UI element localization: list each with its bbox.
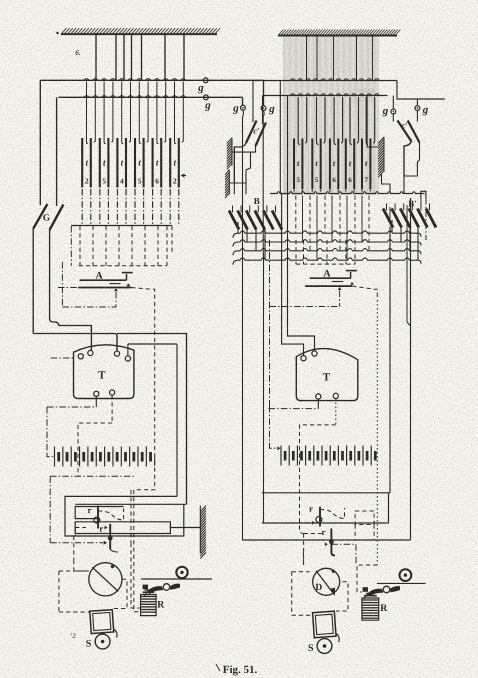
far right loop down to comb B' [421,191,426,240]
resistance coil R (right) [362,594,388,621]
wire earth wall2 to comb B [229,183,246,194]
droppers from bump bus to transfer rows [296,196,369,261]
sounder S electromagnet box (right) [313,611,340,644]
line rail under pulley (left) [141,578,212,580]
relay loop outer (right) [243,539,411,541]
resistance coil R (left) [141,590,166,616]
wire bus2 corner down to middle vertical [242,97,244,105]
key A contact arrow on base (right) [350,282,354,285]
relay tongue 1 with pivot (right) [298,503,345,526]
key A base bar (left) [78,287,131,289]
dashed box around galvanometer (left) [59,571,90,612]
pointer arrow at right of left bank [181,173,186,177]
dash-dot return from key A to line (right) [270,306,340,308]
right line vertical to relay loop inner [389,207,391,493]
transfer wire row 1 between B and B' [233,231,421,238]
key A back contact post (right) [346,271,357,279]
earth wall 1 left of right station [227,138,232,170]
label c' tail wires [234,143,255,183]
wire bus1 corner down to middle vertical [263,80,265,105]
dashed wire dotted-drop to R coil (right) [357,565,377,592]
key A contact arrow on base (left) [126,283,130,286]
key A lower contact arrow (right) [338,287,342,307]
dashed wire galvanometer to sounder (left) [114,579,128,608]
dashed wire from key A to battery right end (left) [131,288,154,612]
earth bar (left station line terminus) [56,28,220,34]
right line vertical to relay loop outer [407,198,411,540]
dash-dot wire relay to galvanometer D (right) [355,544,357,565]
contact spring pair t2 (left bank, position 1) [82,82,95,226]
contact spring pair t (right bank, position 5) [362,97,375,192]
wire T terminal4 to relay loop vertical (y=344 run) [128,344,177,496]
terminal g on bus 1 [197,78,208,94]
contact spring pair t5 (left bank, position 2) [100,82,113,226]
terminal g at line wire 2 head [232,103,245,115]
line bus 1 (left) [41,79,264,81]
wire earth wall1 to c' foot [232,151,251,153]
battery right end dashed drop (left) [154,457,156,466]
contact spring pair t4 (left bank, position 3) [117,82,130,226]
earth wall 2 left of right station [225,170,229,198]
contact spring pair t (right bank, position 4) [346,97,359,192]
T bottom terminal 6 [110,390,115,423]
dashed drop loop-bottom to galvanometer box (left) [74,536,88,571]
contact spring pair t (right bank, position 1) [294,97,307,192]
battery (left station) [55,447,151,467]
bump bus under right bank [270,192,425,194]
earth wall right of c'' [378,137,384,177]
galvanometer D (right) [313,568,340,595]
wire feeders from earth bar to line bus (right) [307,36,373,81]
dashed frame at relay tongues (right) [304,511,375,565]
contact spring pair t (right bank, position 3) [330,97,343,192]
bank margin wire from bus2 wrapping down (right) [288,96,315,351]
relay loop inner (right) [262,522,389,524]
transfer wire row 4 between B and B' [233,258,421,265]
distributor dashed drops from shelf to key A box [80,226,167,266]
T bottom terminal 5 [94,391,99,407]
dash-dot return under battery (left) [50,476,134,545]
joint bumps on line buses (left) [84,79,186,98]
circuit-closer lever (right) [363,586,400,599]
wire from switch G blade2 to transmitter T (hook at left) [50,230,92,350]
short dash-dot stub at T left [51,357,74,359]
T terminal 1 (left top) [78,354,83,359]
terminal g on bus 2 [204,95,212,112]
dashed wire right T terminal4 down-left [300,425,336,534]
switch c'' blade 1 (right) [393,114,411,142]
switch G blade 2 [50,97,64,230]
dashed collector rail above key A (right) [296,240,355,264]
switch G blade 1 [33,80,47,333]
wires into right T from the left [0,0,1,1]
line bus 2 (right) [263,95,388,97]
paper grain overlay [0,0,1,1]
battery (right station) [281,446,375,466]
switch c' blade 2 [253,96,266,147]
earth wall at relay (left) [200,506,206,559]
dashed drop from relay area down to R coil (left) [131,490,141,608]
switch c'' blade 2 (right) [402,111,420,143]
dashed box around galvanometer D (right) [292,552,312,615]
earth bar (right station line terminus) [278,30,400,36]
transmitter T body (right) [296,349,358,401]
bank margin wire from bus1 wrapping down (right) [280,81,303,356]
relay loop inner top rail (left) [75,503,186,505]
brush comb B (left group) [229,206,282,230]
line bus 1 (right) [253,80,397,82]
wire feeders from earth bar to line bus (left) [96,34,184,80]
switch c' blade 1 (right station left side) [246,81,257,144]
dash-dot return from key A to left rail [58,262,116,307]
contact spring pair t6 (left bank, position 5) [153,82,166,226]
relay coil box lower (left) [75,522,170,534]
key A lower contact arrow (left) [114,288,118,307]
dashed wire from key A base to long dotted drop (right) [352,286,377,300]
key A base bar (right) [305,285,352,287]
key A lever (right) [310,269,351,282]
wire relay box to earth wall (left) [170,527,200,529]
contact spring pair t2 (left bank, position 6) [170,82,183,226]
joint bumps on line buses (right) [290,79,379,96]
T terminal 2 (left top) [88,326,93,356]
dashed wire D to sounder (right) [336,582,348,611]
key A lever (left) [80,270,127,283]
relay coil box r-upper (left) [75,505,123,519]
line rail under pulley (right) [290,582,426,584]
dash-dot line wire down left of right station [269,240,271,406]
show-through smudge on right station [283,36,379,195]
dashed jumper at relay tongues (left) [75,528,118,553]
wire from switch G blade1 across to relay loop (y=333.5 run) [33,334,186,505]
circuit-closer lever (left) [143,584,180,597]
T bottom terminal 3 (right) [316,394,321,409]
T terminal 4 (right top) [125,344,130,361]
collector shelf under left bank [71,225,172,227]
dashed collector rail above key A [71,226,172,266]
terminal g at line wire 1 head [261,103,275,115]
sounder S electromagnet box (left) [90,609,118,639]
line wire to distant station (middle vertical 2) [262,111,265,523]
T terminal 1 (right station) [301,356,306,361]
sounder S armature wheel (right) [308,639,332,654]
dash-dot wire right T to battery [269,406,319,450]
terminal g right-inner [382,96,396,118]
contact spring pair t (right bank, position 2) [312,97,325,192]
T terminal 3 (right top) [114,336,119,356]
contact spring pair t5 (left bank, position 4) [135,82,148,226]
dashed wire T bottom terminal6 down-left [78,423,112,476]
pulley wheel (right) [400,569,412,581]
transmitter T body (left) [74,345,134,399]
dash-dot wire T bottom to battery (left) [47,407,96,457]
relay tongue 1 with pivot (left) [94,506,124,529]
relay loop inner top rail (right) [262,493,390,523]
T terminal 2 (right station) [312,351,317,356]
relay tongue 2 with pivot (right) [304,527,335,556]
key A back contact post (left) [122,273,133,281]
sounder S armature wheel (left) [86,634,110,649]
long dotted drop right of T (right) [376,300,378,565]
galvanometer (left) [89,563,122,596]
line bus 2 (left) [58,96,242,98]
terminal g right-outer [415,99,429,116]
brush comb B' (right group) [383,204,436,228]
transfer wire row 3 between B and B' [233,249,421,256]
line wire to distant station (middle vertical 1) [242,110,245,540]
row interconnect verticals (right station) [238,220,418,260]
line out to the right (to distant line) [397,81,445,100]
relay loop outer (left) [65,496,184,536]
pulley wheel (left) [176,567,187,578]
transfer wire row 2 between B and B' [233,240,421,247]
switch c'' output wires [404,142,420,177]
T bottom terminal 4 (right) [333,393,338,425]
relay tongue 2 with pivot (left) [99,524,112,550]
wire from right earth wall to B' branch [367,96,404,194]
